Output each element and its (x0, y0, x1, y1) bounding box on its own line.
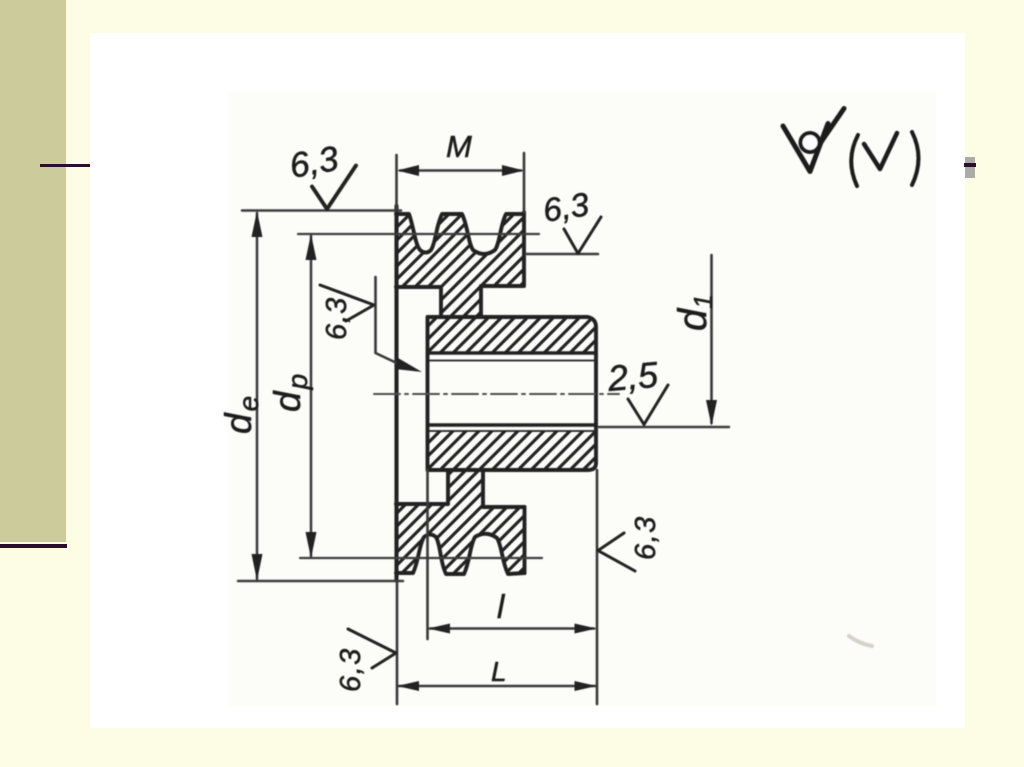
bore bottom chamfer line (428, 430, 595, 432)
dark accent line right (964, 163, 976, 167)
leader line for 6,3 hub face (376, 277, 404, 366)
roughness check top-left 6,3 (312, 166, 356, 210)
hatched hub lower band (428, 431, 597, 470)
dimension l horizontal (430, 627, 594, 630)
lower web right + rim top right (483, 471, 525, 507)
hatched top rim + teeth + web of sprocket (396, 214, 524, 317)
scanned paper background (228, 92, 936, 706)
faint scan smudge (849, 636, 872, 646)
rotated check bottom-right (598, 533, 635, 571)
hatched hub upper band (428, 317, 597, 353)
hatched bottom rim + teeth + web (396, 470, 525, 574)
ring right face upper (481, 212, 524, 317)
dark accent line bottom-left (0, 544, 67, 548)
svg-text:2,5: 2,5 (605, 354, 660, 399)
sprocket left face line (394, 206, 398, 580)
dimension M horizontal with arrows (400, 169, 521, 172)
rotated check left-middle (320, 285, 374, 321)
extension line de top (242, 209, 401, 212)
ring right face lower (523, 507, 527, 573)
extension M right (523, 153, 526, 212)
bore top chamfer line (428, 360, 595, 362)
hub outline (428, 317, 597, 470)
dimension dp vertical (310, 236, 313, 556)
dimension d1 vertical (710, 255, 713, 423)
dimension de vertical (256, 213, 259, 579)
extension L left (396, 581, 399, 704)
bore bottom line (428, 423, 597, 426)
svg-text:L: L (491, 656, 507, 687)
white content panel (90, 33, 965, 728)
svg-text:6,3: 6,3 (540, 185, 592, 229)
extension line bore right (2,5) (599, 426, 729, 429)
bore top line (428, 351, 597, 354)
centerline (374, 393, 619, 395)
extension l left (through teeth) (426, 470, 429, 639)
extension line dp bottom (300, 557, 542, 559)
roughness check top-right 6,3 (564, 217, 601, 254)
bottom teeth outline (396, 534, 525, 574)
svg-text:M: M (446, 129, 472, 164)
extension M left (395, 155, 398, 208)
surface symbol top-right: check with circle (783, 109, 919, 187)
lower rim top left line (396, 471, 448, 504)
svg-text:6,3: 6,3 (321, 297, 353, 340)
svg-text:6,3: 6,3 (335, 647, 367, 692)
extension line tooth root right (526, 253, 598, 256)
dimension L horizontal (399, 685, 595, 688)
extension l/L right (596, 470, 599, 704)
extension line de bottom (238, 580, 403, 583)
rim bottom left + web left upper (396, 287, 441, 317)
gray marker right edge (965, 157, 975, 178)
roughness check 2,5 (628, 385, 668, 425)
left khaki band (0, 0, 66, 542)
extension line dp top (298, 233, 539, 235)
rotated check bottom-left (348, 629, 396, 668)
short dark accent line left (40, 164, 92, 167)
svg-text:de: de (218, 394, 264, 434)
svg-text:6,3: 6,3 (630, 515, 662, 560)
top teeth outline (396, 214, 524, 254)
